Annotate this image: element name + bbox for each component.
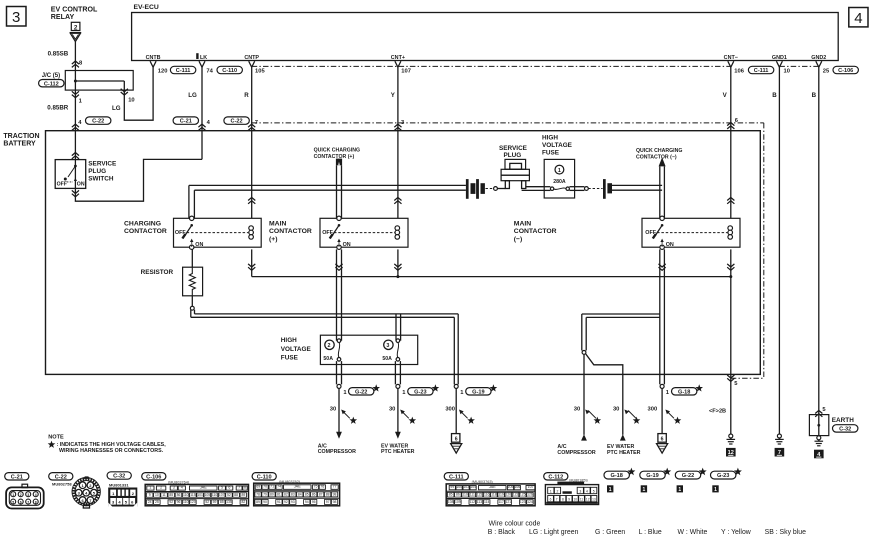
connector C-22 oval left — [86, 117, 111, 124]
chevron battery entry cntp — [248, 124, 255, 130]
connector G-19 pinout — [640, 471, 665, 479]
interlock loop wire — [75, 159, 202, 201]
svg-text:115: 115 — [190, 493, 196, 497]
svg-text:11: 11 — [162, 493, 166, 497]
svg-text:2: 2 — [557, 489, 559, 493]
svg-text:RELAY: RELAY — [51, 13, 75, 21]
ground 7 GND1 wire — [777, 434, 781, 438]
high voltage connector plate right — [603, 179, 606, 199]
svg-text:10: 10 — [128, 98, 134, 104]
svg-text:C-111: C-111 — [754, 68, 769, 74]
svg-text:EV-ECU: EV-ECU — [134, 4, 159, 11]
svg-text:LK: LK — [200, 55, 207, 61]
svg-text:25: 25 — [823, 68, 830, 74]
svg-text:G-23: G-23 — [414, 389, 426, 395]
svg-text:0.85SB: 0.85SB — [48, 51, 69, 58]
svg-text:4: 4 — [35, 493, 37, 497]
svg-text:C-106: C-106 — [838, 68, 853, 74]
svg-text:B : Black: B : Black — [488, 529, 516, 536]
svg-text:89: 89 — [256, 500, 260, 504]
chevron below service plug switch — [72, 190, 79, 196]
svg-text:PLUG: PLUG — [88, 168, 106, 175]
svg-text:97: 97 — [326, 500, 330, 504]
svg-text:25: 25 — [155, 500, 159, 504]
svg-text:QUICK CHARGING: QUICK CHARGING — [314, 148, 360, 154]
wire fuse3 output — [394, 361, 396, 384]
svg-text:92: 92 — [284, 500, 288, 504]
svg-text:115: 115 — [477, 493, 483, 497]
dash link to service plug — [486, 188, 494, 190]
svg-text:88: 88 — [234, 493, 238, 497]
fuse F3 element — [396, 339, 400, 343]
branch bus to compressor heater — [582, 313, 660, 315]
svg-text:CONTACTOR: CONTACTOR — [269, 228, 312, 235]
svg-text:LG: LG — [112, 105, 121, 112]
chevron cnt+ above contactor — [394, 197, 401, 203]
svg-text:109: 109 — [455, 500, 461, 504]
svg-text:Wire colour code: Wire colour code — [489, 520, 541, 527]
svg-text:CONTACTOR: CONTACTOR — [124, 228, 167, 235]
terminal arrow ev water 1 — [395, 432, 401, 439]
svg-text:100: 100 — [456, 485, 462, 489]
svg-text:COMPRESSOR: COMPRESSOR — [557, 450, 595, 456]
svg-text:ON: ON — [343, 242, 351, 248]
svg-text:300: 300 — [445, 407, 455, 413]
chevron coil V down — [727, 264, 734, 270]
svg-text:WIRING HARNESSES OR CONNECTORS: WIRING HARNESSES OR CONNECTORS. — [59, 448, 164, 454]
chevron battery entry cnt+ — [394, 124, 401, 130]
svg-text:110: 110 — [212, 493, 218, 497]
wire V CNT- — [730, 67, 732, 218]
svg-text:OFF: OFF — [57, 182, 67, 188]
svg-text:6: 6 — [661, 437, 664, 443]
svg-text:PTC HEATER: PTC HEATER — [381, 449, 415, 455]
HIGH VOLTAGE FUSE F1 box — [544, 159, 574, 198]
svg-text:J/C (5): J/C (5) — [42, 73, 60, 79]
svg-text:50A: 50A — [323, 356, 333, 362]
connector C-111 pinout — [444, 473, 468, 480]
svg-text:76: 76 — [320, 485, 324, 489]
svg-text:C-106: C-106 — [146, 474, 161, 480]
svg-text:107: 107 — [219, 493, 225, 497]
svg-text:30: 30 — [574, 407, 580, 413]
connector C-32 pinout — [107, 472, 131, 479]
terminal arrow ev water 2 — [620, 434, 626, 440]
svg-text:L : Blue: L : Blue — [639, 529, 662, 536]
svg-text:85: 85 — [449, 493, 453, 497]
svg-text:JAE: JAE — [294, 485, 301, 489]
connector C-110 pinout — [252, 473, 276, 480]
svg-text:<F>2B: <F>2B — [709, 409, 726, 415]
svg-text:52: 52 — [227, 493, 231, 497]
chevron coil Y down — [394, 264, 401, 270]
connector C-112 pinout — [544, 473, 568, 480]
svg-text:124: 124 — [527, 500, 533, 504]
svg-text:(−): (−) — [514, 236, 523, 243]
svg-text:G : Green: G : Green — [595, 529, 625, 536]
svg-text:CNTP: CNTP — [244, 55, 259, 61]
svg-text:70: 70 — [263, 485, 267, 489]
svg-text:LG: LG — [188, 92, 197, 99]
connector fork pin 25 GND2 — [816, 61, 822, 67]
svg-text:CNT+: CNT+ — [391, 55, 405, 61]
svg-text:2: 2 — [160, 485, 162, 489]
svg-text:30: 30 — [613, 407, 619, 413]
wire 0.85SB relay to J/C — [74, 42, 76, 71]
high voltage connector plates left — [466, 179, 469, 199]
svg-text:0.85BR: 0.85BR — [47, 104, 69, 111]
svg-text:6: 6 — [550, 498, 552, 502]
SERVICE PLUG body — [505, 159, 526, 169]
ground 12 CNT- wire — [729, 434, 733, 438]
svg-text:NOTE: NOTE — [48, 434, 64, 440]
svg-text:4: 4 — [181, 485, 183, 489]
svg-text:3: 3 — [27, 493, 29, 497]
harness dashed line CNTP to CNT- — [252, 65, 731, 67]
svg-text:78: 78 — [256, 492, 260, 496]
svg-text:12: 12 — [586, 498, 590, 502]
terminal box 6 g18 — [658, 434, 666, 443]
svg-text:30: 30 — [389, 407, 395, 413]
svg-text:10: 10 — [784, 68, 790, 74]
svg-text:280A: 280A — [553, 179, 566, 185]
svg-text:CONTACTOR (−): CONTACTOR (−) — [636, 154, 677, 160]
svg-text:85: 85 — [220, 500, 224, 504]
high voltage bus to quick charging contactor - — [612, 184, 662, 186]
svg-text:GND1: GND1 — [772, 55, 787, 61]
wire R CNTP — [251, 67, 253, 218]
svg-text:126: 126 — [527, 493, 533, 497]
svg-text:FUSE: FUSE — [281, 355, 299, 362]
svg-text:3: 3 — [386, 343, 389, 349]
svg-text:74: 74 — [277, 485, 281, 489]
svg-text:GND2: GND2 — [811, 55, 826, 61]
page link 4 — [849, 8, 868, 27]
svg-text:EARTH: EARTH — [832, 417, 854, 424]
svg-text:C-32: C-32 — [839, 427, 851, 433]
chevron out J/C pin 10 — [121, 89, 128, 95]
svg-text:110: 110 — [183, 500, 189, 504]
svg-text:105: 105 — [255, 68, 265, 74]
svg-text:104: 104 — [470, 485, 476, 489]
svg-text:9: 9 — [568, 498, 570, 502]
svg-text:99: 99 — [450, 485, 454, 489]
svg-text:9: 9 — [149, 493, 151, 497]
svg-text:107: 107 — [401, 68, 411, 74]
svg-text:103: 103 — [463, 485, 469, 489]
svg-text:52: 52 — [205, 500, 209, 504]
svg-text:B: B — [772, 92, 777, 99]
wire J/C pin1 to service plug switch — [74, 90, 76, 160]
connector G-18 pinout — [604, 471, 629, 479]
svg-text:98: 98 — [333, 500, 337, 504]
svg-text:74: 74 — [206, 68, 213, 74]
svg-text:6: 6 — [455, 437, 458, 443]
pin box 2 of EV control relay — [71, 22, 80, 30]
svg-text:C-21: C-21 — [11, 474, 23, 480]
svg-text:96: 96 — [177, 500, 181, 504]
svg-text:4: 4 — [586, 489, 588, 493]
wire main contactor + to fuse 2 — [336, 249, 338, 340]
svg-text:BATTERY: BATTERY — [3, 140, 36, 147]
svg-text:G-18: G-18 — [678, 389, 690, 395]
svg-text:RESISTOR: RESISTOR — [141, 269, 174, 276]
wire precharge output G-19 — [454, 384, 458, 388]
wire branch to ac compressor 2 — [583, 354, 585, 435]
svg-text:8: 8 — [35, 500, 37, 504]
connector C-106 pinout — [142, 473, 166, 480]
svg-text:50A: 50A — [382, 356, 392, 362]
service plug switch internals — [74, 160, 76, 189]
svg-text:83: 83 — [291, 492, 295, 496]
chevron battery entry ilk — [198, 124, 205, 130]
connector C-112 oval — [39, 80, 64, 87]
svg-text:C-22: C-22 — [55, 474, 67, 480]
svg-text:CNT−: CNT− — [724, 55, 738, 61]
svg-text:SB : Sky blue: SB : Sky blue — [765, 529, 807, 536]
svg-text:B: B — [812, 92, 817, 99]
svg-text:7: 7 — [238, 485, 240, 489]
battery dashed boundary right — [763, 123, 765, 378]
svg-text:1: 1 — [609, 487, 612, 493]
terminal box 6 g19 — [452, 434, 460, 443]
wire fuse2 output — [336, 361, 338, 384]
svg-text:OFF: OFF — [322, 230, 333, 236]
star arrow ac2 — [588, 411, 596, 419]
svg-text:84: 84 — [298, 492, 302, 496]
svg-text:JAE: JAE — [200, 485, 207, 489]
svg-text:2: 2 — [74, 24, 78, 31]
svg-text:300: 300 — [648, 407, 658, 413]
svg-text:1: 1 — [558, 168, 561, 174]
svg-text:86: 86 — [177, 493, 181, 497]
connector G-22 pinout — [675, 471, 700, 479]
svg-text:112: 112 — [470, 500, 476, 504]
svg-text:116: 116 — [484, 493, 490, 497]
ground 4 GND2 wire — [817, 436, 821, 440]
svg-text:7: 7 — [27, 500, 29, 504]
wire B GND2 — [818, 67, 820, 415]
svg-text:106: 106 — [734, 68, 744, 74]
inter-page connector triangle C — [70, 32, 81, 34]
wire LG ILK — [201, 67, 203, 159]
svg-text:113: 113 — [477, 500, 483, 504]
svg-text:COMPRESSOR: COMPRESSOR — [318, 449, 356, 455]
wire quick charging contactor + stub — [336, 165, 338, 218]
connector G-23 pinout — [711, 471, 736, 479]
wire V to body ground — [730, 277, 732, 435]
svg-text:W : White: W : White — [678, 529, 708, 536]
svg-text:QUICK CHARGING: QUICK CHARGING — [636, 148, 682, 154]
svg-text:C-111: C-111 — [449, 474, 464, 480]
svg-text:Y : Yellow: Y : Yellow — [721, 529, 751, 536]
svg-text:5: 5 — [593, 489, 595, 493]
svg-text:85: 85 — [305, 492, 309, 496]
svg-text:10: 10 — [155, 493, 159, 497]
svg-text:80: 80 — [270, 492, 274, 496]
svg-text:71: 71 — [270, 485, 274, 489]
star arrow g18 — [666, 411, 674, 419]
svg-text:75: 75 — [314, 485, 318, 489]
connector fork pin 105 CNTP — [249, 61, 255, 67]
svg-text:135: 135 — [226, 500, 232, 504]
svg-text:C-110: C-110 — [222, 68, 237, 74]
wire B GND1 — [778, 67, 780, 434]
svg-text:VOLTAGE: VOLTAGE — [542, 142, 573, 149]
connector C-21 oval — [173, 117, 198, 124]
svg-text:ON: ON — [666, 242, 674, 248]
fuse F2 element — [337, 339, 341, 343]
connector C-22 pinout — [49, 473, 73, 480]
battery dashed boundary bottom right — [731, 377, 764, 379]
wire branch to ev water heater 2 — [586, 354, 623, 435]
svg-text:110: 110 — [183, 493, 189, 497]
wire charging contactor to resistor — [191, 249, 193, 267]
svg-text:VOLTAGE: VOLTAGE — [281, 346, 312, 353]
svg-text:1: 1 — [149, 485, 151, 489]
svg-text:5: 5 — [221, 485, 223, 489]
svg-text:108: 108 — [448, 500, 454, 504]
svg-text:59: 59 — [213, 500, 217, 504]
svg-text:24: 24 — [148, 500, 152, 504]
svg-text:SERVICE: SERVICE — [499, 145, 528, 152]
svg-text:13: 13 — [592, 498, 596, 502]
chevron cnt- above contactor — [727, 197, 734, 203]
svg-text:111: 111 — [470, 493, 475, 497]
HIGH VOLTAGE FUSE F2 F3 box — [320, 335, 417, 364]
connector fork pin 10 GND1 — [776, 61, 782, 67]
chevron before earth — [815, 410, 822, 416]
svg-text:87: 87 — [319, 492, 323, 496]
svg-text:92: 92 — [169, 500, 173, 504]
svg-text:G-23: G-23 — [717, 473, 729, 479]
svg-text:OFF: OFF — [175, 230, 186, 236]
svg-text:1: 1 — [550, 489, 552, 493]
terminal arrow ac compressor 2 — [581, 434, 587, 440]
svg-text:101: 101 — [197, 493, 203, 497]
svg-text:81: 81 — [277, 492, 281, 496]
svg-text:2: 2 — [20, 493, 22, 497]
svg-text:G-19: G-19 — [472, 389, 484, 395]
svg-text:95: 95 — [312, 500, 316, 504]
SERVICE PLUG SWITCH box — [55, 160, 85, 189]
svg-text:C-112: C-112 — [548, 474, 563, 480]
connector fork pin 120 CNTB — [150, 61, 156, 67]
svg-text:122: 122 — [513, 493, 519, 497]
wire LG J/C pin10 to CNTB — [124, 67, 153, 120]
wire quick charging contactor - stub — [659, 166, 661, 218]
wire Y CNT+ — [397, 67, 399, 218]
svg-text:C-110: C-110 — [257, 474, 272, 480]
harness dashed line GND1 to GND2 — [779, 65, 818, 67]
svg-text:8: 8 — [562, 498, 564, 502]
svg-text:1: 1 — [678, 487, 681, 493]
svg-text:85: 85 — [169, 493, 173, 497]
star arrow g22 — [342, 411, 350, 419]
svg-text:HIGH: HIGH — [542, 134, 558, 141]
svg-text:69: 69 — [256, 485, 260, 489]
chevron battery entry cnt- — [727, 123, 734, 129]
svg-text:1: 1 — [714, 487, 717, 493]
pin label ILK — [196, 53, 198, 59]
svg-text:(+): (+) — [269, 236, 278, 243]
svg-text:C-112: C-112 — [44, 81, 59, 87]
svg-text:107: 107 — [528, 485, 534, 489]
high voltage precharge bus — [190, 310, 192, 318]
svg-text:86: 86 — [312, 492, 316, 496]
svg-text:11: 11 — [580, 498, 584, 502]
svg-text:CNTB: CNTB — [146, 55, 161, 61]
svg-text:7: 7 — [556, 498, 558, 502]
svg-text:88: 88 — [326, 492, 330, 496]
svg-text:JAE: JAE — [489, 485, 496, 489]
chevron battery entry x75 — [72, 124, 79, 130]
svg-text:HIGH: HIGH — [281, 337, 297, 344]
fuse F1 element — [544, 186, 550, 188]
svg-text:2: 2 — [328, 343, 331, 349]
svg-text:CONTACTOR (+): CONTACTOR (+) — [314, 154, 355, 160]
svg-text:C-32: C-32 — [113, 474, 125, 480]
svg-text:C-21: C-21 — [180, 119, 192, 125]
svg-text:G-18: G-18 — [610, 473, 622, 479]
wire resistor to precharge bus — [191, 296, 193, 307]
connector C-22 oval cntp — [224, 117, 249, 124]
TRACTION BATTERY box — [46, 131, 761, 375]
svg-text:ON: ON — [77, 182, 85, 188]
svg-text:MU802758: MU802758 — [52, 482, 72, 487]
svg-text:3: 3 — [173, 485, 175, 489]
connector fork pin 107 CNT+ — [395, 61, 401, 67]
connector C-21 pinout — [5, 473, 29, 480]
svg-text:3: 3 — [12, 9, 20, 26]
svg-text:114: 114 — [484, 500, 490, 504]
svg-text:SERVICE: SERVICE — [88, 161, 117, 168]
junction box J/C (5) — [65, 71, 133, 91]
svg-text:PLUG: PLUG — [504, 152, 522, 159]
svg-text:79: 79 — [263, 492, 267, 496]
svg-text:G-19: G-19 — [646, 473, 658, 479]
svg-text:MAIN: MAIN — [514, 221, 531, 228]
svg-text:98: 98 — [333, 492, 337, 496]
svg-text:105: 105 — [508, 485, 514, 489]
connector fork pin 74 ILK — [199, 61, 205, 67]
svg-text:89: 89 — [241, 493, 245, 497]
chevron mc+ down — [335, 264, 342, 270]
svg-text:8: 8 — [244, 485, 246, 489]
star arrow ev2 — [628, 411, 636, 419]
chevron V battery exit — [727, 375, 734, 381]
svg-text:106: 106 — [514, 485, 520, 489]
star arrow g23 — [401, 411, 409, 419]
svg-text:1: 1 — [12, 493, 14, 497]
chevron before service plug switch — [72, 153, 79, 159]
wire fuse to HV connector right — [575, 186, 585, 188]
svg-text:G-22: G-22 — [682, 473, 694, 479]
svg-text:ON: ON — [195, 242, 203, 248]
wire precharge bus to fuse 3 — [395, 314, 397, 341]
svg-text:90: 90 — [263, 500, 267, 504]
svg-text:G-22: G-22 — [355, 389, 367, 395]
svg-text:CONTACTOR: CONTACTOR — [514, 228, 557, 235]
svg-text:10: 10 — [574, 498, 578, 502]
svg-text:125: 125 — [520, 493, 526, 497]
EV-ECU module box — [132, 13, 839, 61]
svg-text:30: 30 — [330, 407, 336, 413]
svg-text:6: 6 — [228, 485, 230, 489]
svg-text:1: 1 — [643, 487, 646, 493]
high voltage bus to service plug — [189, 184, 466, 186]
svg-text:7: 7 — [255, 120, 258, 126]
